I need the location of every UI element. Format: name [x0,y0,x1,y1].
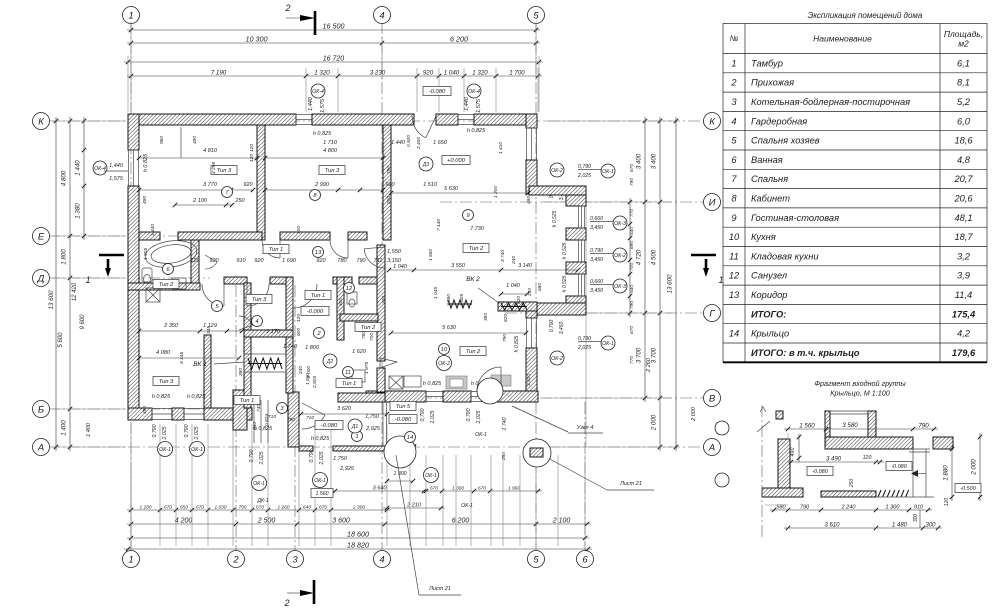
svg-text:3 770: 3 770 [203,182,218,188]
svg-text:ОК-1: ОК-1 [253,481,265,487]
svg-text:Крыльцо, М 1:100: Крыльцо, М 1:100 [830,389,889,398]
svg-text:-0.000: -0.000 [307,309,324,315]
svg-text:-0.500: -0.500 [960,486,977,492]
svg-text:0,790: 0,790 [249,449,255,462]
svg-text:650: 650 [180,505,188,511]
svg-text:2 000: 2 000 [306,366,312,379]
svg-text:4 800: 4 800 [323,148,338,154]
svg-text:1,575: 1,575 [476,98,482,113]
svg-text:Тип 2: Тип 2 [159,282,174,288]
svg-text:ОК-1: ОК-1 [461,503,473,509]
svg-text:Узел 4: Узел 4 [576,425,594,431]
svg-text:770: 770 [629,209,635,217]
svg-text:1 440: 1 440 [75,160,82,176]
svg-text:790: 790 [356,258,366,264]
svg-text:2 100: 2 100 [552,518,571,525]
svg-text:780: 780 [337,258,347,264]
svg-text:920: 920 [243,182,253,188]
svg-text:10 300: 10 300 [246,35,268,44]
svg-text:1 960: 1 960 [508,486,520,492]
svg-text:4: 4 [379,554,384,565]
svg-text:240: 240 [298,366,304,375]
svg-text:h 0,825: h 0,825 [313,131,332,137]
svg-text:3,450: 3,450 [590,225,603,231]
svg-text:h 0,525: h 0,525 [562,242,568,259]
svg-text:1,575: 1,575 [109,176,124,182]
svg-text:1 045: 1 045 [433,287,439,299]
svg-text:5,2: 5,2 [957,97,971,107]
svg-text:2,400: 2,400 [416,137,422,150]
svg-text:0,660: 0,660 [590,216,603,222]
svg-text:2,025: 2,025 [430,410,436,424]
svg-text:h 0,525: h 0,525 [552,210,558,227]
svg-text:11,4: 11,4 [955,290,972,300]
svg-text:ОК-2: ОК-2 [438,361,450,367]
svg-text:2,025: 2,025 [476,410,482,424]
svg-text:1 440: 1 440 [391,140,406,146]
svg-text:12 420: 12 420 [72,282,78,301]
svg-text:1 300: 1 300 [452,486,464,492]
svg-text:1 740: 1 740 [283,344,298,350]
svg-text:Прихожая: Прихожая [751,78,794,88]
svg-text:1 410: 1 410 [498,142,504,154]
svg-text:790: 790 [629,301,635,309]
svg-text:11: 11 [345,370,351,376]
svg-text:300: 300 [381,296,387,304]
svg-text:ОК-1: ОК-1 [191,447,203,453]
svg-text:Д1: Д1 [351,424,359,430]
svg-text:1 550: 1 550 [428,249,434,261]
svg-text:13 600: 13 600 [667,274,674,293]
svg-text:4 800: 4 800 [61,170,68,186]
svg-text:2: 2 [283,598,289,608]
svg-text:h 0,825: h 0,825 [143,153,149,172]
svg-text:540: 540 [629,227,635,235]
svg-text:640: 640 [303,505,311,511]
svg-text:1 040: 1 040 [393,264,408,270]
svg-text:Тип 1: Тип 1 [342,381,357,387]
svg-text:2,025: 2,025 [259,451,265,465]
svg-text:2: 2 [730,78,737,88]
svg-text:120: 120 [249,144,255,152]
svg-text:Площадь,: Площадь, [944,29,983,39]
svg-text:490: 490 [790,448,796,457]
svg-text:175,4: 175,4 [952,309,976,319]
svg-text:Д: Д [37,273,45,284]
svg-text:240: 240 [511,256,517,265]
svg-text:Кухня: Кухня [751,232,776,242]
svg-text:13: 13 [729,290,740,300]
svg-text:0,790: 0,790 [578,336,591,342]
svg-text:490: 490 [142,196,148,204]
svg-text:Спальня хозяев: Спальня хозяев [751,136,820,146]
svg-text:7 190: 7 190 [211,70,227,77]
svg-text:Тип 1: Тип 1 [240,398,255,404]
svg-text:4,8: 4,8 [957,155,971,165]
svg-text:600: 600 [296,328,302,336]
svg-text:Экспликация помещений дома: Экспликация помещений дома [808,11,923,20]
svg-text:6,1: 6,1 [957,58,970,68]
svg-text:670: 670 [256,505,264,511]
svg-text:490: 490 [142,406,148,414]
svg-text:0,920: 0,920 [406,135,412,147]
svg-text:5: 5 [533,10,539,21]
svg-text:4 080: 4 080 [156,350,171,356]
svg-text:2 350: 2 350 [163,323,179,329]
svg-text:1 560: 1 560 [799,423,815,430]
svg-text:670: 670 [319,505,327,511]
svg-text:5: 5 [533,554,539,565]
svg-text:ОК-2: ОК-2 [551,356,563,362]
svg-text:-0.080: -0.080 [812,469,829,475]
svg-text:1 170: 1 170 [266,329,281,335]
svg-text:18,6: 18,6 [954,136,973,146]
svg-text:790: 790 [502,334,508,342]
svg-text:14: 14 [729,329,739,339]
svg-text:4,2: 4,2 [957,329,971,339]
svg-text:1: 1 [355,434,358,440]
svg-text:120: 120 [249,154,255,162]
svg-text:580: 580 [776,505,786,511]
svg-text:670: 670 [478,486,486,492]
svg-text:2: 2 [232,554,239,565]
svg-text:Наименование: Наименование [813,34,872,44]
svg-text:711: 711 [374,258,383,264]
svg-text:3 700: 3 700 [636,347,643,363]
svg-text:Тамбур: Тамбур [751,58,783,68]
svg-text:1 300: 1 300 [394,471,407,477]
svg-text:10: 10 [441,347,448,353]
svg-text:16 720: 16 720 [323,56,345,63]
svg-text:400: 400 [338,298,344,306]
svg-text:Лист 21: Лист 21 [428,586,451,592]
svg-text:3 620: 3 620 [337,406,352,412]
svg-text:1 260: 1 260 [277,505,289,511]
svg-text:16 500: 16 500 [323,22,345,31]
svg-text:1 800: 1 800 [305,345,320,351]
svg-text:0,790: 0,790 [549,320,555,333]
svg-text:2,925: 2,925 [312,376,318,389]
svg-text:2,025: 2,025 [162,426,168,440]
svg-text:3,450: 3,450 [559,322,565,335]
svg-text:3 550: 3 550 [451,263,466,269]
svg-text:380: 380 [238,368,244,376]
svg-text:300: 300 [296,226,302,234]
svg-text:ОК-1: ОК-1 [475,432,487,438]
svg-text:А: А [708,442,715,453]
svg-text:0,790: 0,790 [590,248,603,254]
svg-text:4 720: 4 720 [636,249,643,265]
svg-text:14: 14 [407,435,413,441]
svg-text:6 200: 6 200 [450,35,468,44]
svg-text:790: 790 [238,505,246,511]
svg-text:790: 790 [386,166,392,174]
svg-text:240: 240 [527,288,533,297]
svg-text:Лист 21: Лист 21 [619,481,642,487]
svg-text:1: 1 [731,58,736,68]
svg-text:7: 7 [731,174,737,184]
svg-text:1: 1 [85,275,90,285]
svg-text:h 0,825: h 0,825 [514,335,520,352]
svg-text:8,1: 8,1 [957,78,970,88]
svg-text:8: 8 [731,193,737,203]
svg-text:Тип 1: Тип 1 [311,293,326,299]
svg-text:670: 670 [164,505,172,511]
svg-text:250: 250 [501,452,507,461]
svg-text:Фрагмент входной группы: Фрагмент входной группы [814,379,906,388]
svg-text:300: 300 [925,523,936,529]
svg-text:ИТОГО: в т.ч. крыльцо: ИТОГО: в т.ч. крыльцо [751,348,860,358]
svg-text:ИТОГО:: ИТОГО: [751,309,786,319]
svg-text:3 580: 3 580 [842,422,858,429]
svg-text:В: В [709,393,716,404]
svg-text:h 0,525: h 0,525 [562,275,568,292]
svg-text:Котельная-бойлерная-постирочна: Котельная-бойлерная-постирочная [751,97,910,107]
svg-text:18 820: 18 820 [347,541,369,550]
svg-text:1 880: 1 880 [943,465,950,481]
svg-text:5: 5 [731,136,737,146]
svg-text:920: 920 [254,258,264,264]
svg-text:1 800: 1 800 [61,249,68,265]
svg-text:9: 9 [731,213,736,223]
svg-text:3 490: 3 490 [826,457,842,463]
svg-text:Кабинет: Кабинет [751,193,790,203]
svg-text:ВК 2: ВК 2 [466,276,480,283]
svg-text:1,750: 1,750 [365,414,380,420]
svg-text:ОК-2: ОК-2 [551,168,563,174]
svg-text:2 000: 2 000 [971,459,978,476]
svg-text:490: 490 [192,136,198,144]
svg-text:1 690: 1 690 [282,258,297,264]
svg-text:Д2: Д2 [326,359,334,365]
svg-text:670: 670 [629,326,635,334]
svg-text:345: 345 [206,326,212,334]
svg-text:0,790: 0,790 [466,408,472,421]
svg-text:Тип 2: Тип 2 [466,349,481,355]
svg-text:А: А [37,442,44,453]
svg-text:0,824: 0,824 [264,414,270,426]
svg-text:2 500: 2 500 [257,518,276,525]
svg-text:1: 1 [128,554,133,565]
svg-text:Тип 3: Тип 3 [159,379,174,385]
svg-text:ОК-1: ОК-1 [602,341,614,347]
svg-text:1 030: 1 030 [214,505,226,511]
svg-text:0,660: 0,660 [590,279,603,285]
svg-text:790: 790 [918,423,929,430]
svg-text:1 320: 1 320 [314,70,330,77]
svg-text:1 380: 1 380 [75,203,82,219]
svg-text:1,440: 1,440 [464,96,470,111]
svg-text:11: 11 [729,251,739,261]
svg-text:2 100: 2 100 [192,198,208,204]
svg-text:-0.080: -0.080 [321,423,338,429]
svg-text:0,790: 0,790 [578,164,591,170]
svg-text:1 750: 1 750 [333,456,348,462]
svg-text:790: 790 [287,417,295,423]
svg-text:250: 250 [234,198,245,204]
svg-text:2,025: 2,025 [577,345,591,351]
svg-text:3,450: 3,450 [590,288,603,294]
svg-text:1 180: 1 180 [139,505,151,511]
svg-text:1 905: 1 905 [143,248,149,260]
svg-text:1 040: 1 040 [444,70,460,77]
svg-text:250: 250 [849,479,855,489]
svg-text:770: 770 [629,356,635,364]
svg-text:120: 120 [863,455,872,461]
svg-text:1 740: 1 740 [502,417,508,430]
svg-text:6: 6 [582,554,588,565]
svg-text:ВК 1: ВК 1 [193,361,207,368]
svg-text:9 600: 9 600 [80,314,86,330]
svg-text:h 0,825: h 0,825 [254,426,273,432]
svg-text:1 320: 1 320 [472,70,488,77]
svg-text:710: 710 [306,415,314,421]
svg-text:2 000: 2 000 [691,406,697,422]
svg-text:740: 740 [256,404,262,412]
svg-text:Коридор: Коридор [751,290,787,300]
svg-text:670: 670 [196,505,204,511]
svg-text:Д3: Д3 [422,162,430,168]
svg-text:ОК-1: ОК-1 [602,169,614,175]
svg-text:1 400: 1 400 [61,420,68,436]
svg-text:1,575: 1,575 [320,98,326,113]
svg-text:1 200: 1 200 [493,186,499,198]
svg-text:5 600: 5 600 [58,332,64,348]
svg-text:790: 790 [800,505,810,511]
svg-text:5 630: 5 630 [444,186,459,192]
svg-text:3,450: 3,450 [590,257,603,263]
svg-text:-0.080: -0.080 [891,464,908,470]
svg-text:490: 490 [526,196,532,204]
svg-text:1: 1 [128,10,133,21]
svg-text:670: 670 [629,164,635,172]
svg-text:1 440: 1 440 [150,224,156,236]
svg-text:ОК-4: ОК-4 [468,89,480,95]
svg-text:700: 700 [369,333,375,341]
svg-text:Тип 2: Тип 2 [469,246,484,252]
svg-text:820: 820 [516,296,522,304]
svg-text:4 500: 4 500 [651,249,658,265]
svg-text:1 040: 1 040 [506,283,521,289]
svg-text:3 600: 3 600 [332,518,350,525]
svg-text:Тип 3: Тип 3 [325,168,340,174]
svg-text:6,0: 6,0 [957,116,971,126]
svg-text:1 700: 1 700 [509,70,525,77]
svg-text:0,790: 0,790 [420,408,426,421]
svg-text:2: 2 [284,3,290,13]
svg-text:12: 12 [729,271,740,281]
svg-text:ОК-3: ОК-3 [614,221,626,227]
svg-text:3 640: 3 640 [373,486,388,492]
svg-text:540: 540 [629,285,635,293]
svg-text:12: 12 [346,286,353,292]
svg-text:ОК-3: ОК-3 [614,284,626,290]
svg-text:1 650: 1 650 [433,140,448,146]
svg-text:380: 380 [483,313,489,321]
svg-text:Гардеробная: Гардеробная [751,116,807,126]
svg-text:2 000: 2 000 [651,414,658,431]
svg-text:Е: Е [38,231,45,242]
svg-text:4 200: 4 200 [175,518,193,525]
svg-text:3 610: 3 610 [824,523,840,529]
svg-text:2 300: 2 300 [352,505,365,511]
svg-text:2,025: 2,025 [577,173,591,179]
svg-text:м2: м2 [958,39,969,49]
svg-text:2,925: 2,925 [365,426,381,432]
svg-text:h 0,825: h 0,825 [311,436,330,442]
svg-text:2,025: 2,025 [194,426,200,440]
svg-text:0,790: 0,790 [184,424,190,437]
svg-text:h 0,825: h 0,825 [423,381,442,387]
svg-text:№: № [730,34,739,43]
svg-text:1 510: 1 510 [423,182,438,188]
svg-text:3: 3 [292,554,298,565]
svg-text:4: 4 [379,10,384,21]
svg-text:300: 300 [913,514,919,523]
svg-text:18,7: 18,7 [954,232,973,242]
svg-text:И: И [709,197,716,208]
svg-text:1,440: 1,440 [308,96,314,111]
svg-text:0,790: 0,790 [152,424,158,437]
svg-text:670: 670 [430,486,438,492]
svg-text:3 400: 3 400 [651,153,658,169]
svg-text:910: 910 [236,258,246,264]
svg-text:920: 920 [209,258,219,264]
svg-text:Крыльцо: Крыльцо [751,329,789,339]
svg-text:2 260: 2 260 [646,357,652,373]
svg-text:3,9: 3,9 [957,271,970,281]
svg-text:1,440: 1,440 [109,163,124,169]
svg-text:1 480: 1 480 [892,523,908,529]
svg-text:Тип 2: Тип 2 [361,325,376,331]
svg-text:120: 120 [944,498,950,507]
svg-text:1,550: 1,550 [387,249,402,255]
svg-text:Тип 1: Тип 1 [269,247,284,253]
svg-text:Б: Б [38,404,44,415]
svg-text:120: 120 [190,258,200,264]
svg-text:18 600: 18 600 [347,530,369,539]
svg-text:3 320: 3 320 [526,374,532,386]
svg-text:920: 920 [316,258,326,264]
svg-text:h 0,825: h 0,825 [152,394,171,400]
svg-text:4 295: 4 295 [211,162,217,174]
svg-text:7 140: 7 140 [436,219,442,231]
svg-text:ДК-1: ДК-1 [256,498,268,504]
svg-text:Спальня: Спальня [751,174,788,184]
svg-text:6 200: 6 200 [452,518,470,525]
svg-text:6: 6 [731,155,737,165]
svg-text:790: 790 [629,178,635,186]
svg-text:Г: Г [709,308,715,319]
svg-text:20,7: 20,7 [953,174,973,184]
svg-text:1 710: 1 710 [323,140,338,146]
svg-text:1 975: 1 975 [364,362,370,374]
svg-text:-0.080: -0.080 [395,417,412,423]
svg-text:Гостиная-столовая: Гостиная-столовая [751,213,839,223]
svg-text:120: 120 [296,314,302,322]
svg-text:1 400: 1 400 [86,422,92,437]
svg-text:2 240: 2 240 [841,505,857,511]
svg-text:3 230: 3 230 [370,70,386,77]
svg-text:13: 13 [315,250,322,256]
svg-text:5 630: 5 630 [442,325,457,331]
svg-text:Ванная: Ванная [751,155,783,165]
svg-text:20,6: 20,6 [953,193,973,203]
svg-text:1 300: 1 300 [886,505,901,511]
svg-text:3 740: 3 740 [500,250,506,262]
svg-text:179,6: 179,6 [952,348,976,358]
svg-text:3 140: 3 140 [518,263,533,269]
